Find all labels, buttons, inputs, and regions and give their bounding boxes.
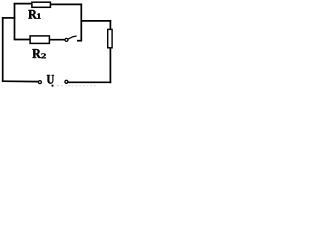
- wire: middle branch left segment: [14, 39, 30, 41]
- label R2 subscript: [41, 53, 46, 58]
- wire: outer left vertical: [2, 17, 4, 81]
- watermark: [57, 85, 97, 87]
- resistor R2 box: [30, 36, 49, 44]
- terminal circle left (node a): [38, 81, 41, 84]
- switch S fixed contact foot: [77, 40, 82, 42]
- label R1: [28, 10, 37, 19]
- resistor R1 box: [32, 2, 51, 7]
- label U (voltage source gap): [47, 75, 54, 84]
- wire: right T horizontal: [81, 20, 111, 22]
- wire: right junction vertical: [80, 4, 82, 42]
- wire: bottom-right horizontal from terminal: [68, 81, 111, 83]
- wire: left node stub horizontal: [2, 17, 15, 19]
- wire: middle branch right segment to switch: [49, 39, 65, 41]
- resistor R3 box (unlabeled, right side): [108, 29, 112, 47]
- U label dot: [52, 85, 54, 87]
- switch S pivot circle: [65, 38, 68, 41]
- label R1 subscript: [37, 13, 41, 18]
- switch S lever: [68, 36, 77, 39]
- wire: bottom-left horizontal to terminal: [2, 80, 39, 82]
- label R2: [32, 49, 41, 58]
- wire: right outer vertical upper: [109, 20, 111, 30]
- wire: top branch right segment: [50, 3, 82, 5]
- wire: top branch left segment: [14, 3, 33, 5]
- wire: right outer vertical lower: [109, 48, 111, 83]
- terminal circle right (node b): [65, 80, 68, 83]
- wire: inner left junction vertical: [14, 3, 16, 40]
